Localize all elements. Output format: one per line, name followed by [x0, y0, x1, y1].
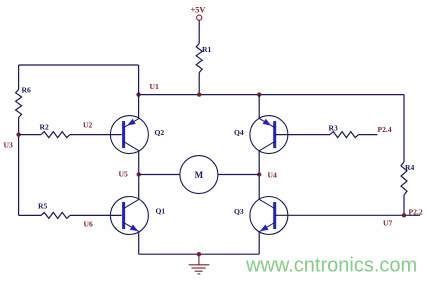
resistor R6 [16, 90, 22, 118]
svg-text:U5: U5 [119, 170, 128, 179]
svg-text:P2.4: P2.4 [378, 125, 392, 134]
wire bus to Q2 collector [138, 65, 140, 118]
transistor Q3 [250, 197, 288, 235]
wire R3 to P2.4 [359, 134, 378, 136]
wire bottom rail [139, 253, 260, 255]
svg-text:R3: R3 [329, 124, 338, 133]
svg-text:U1: U1 [150, 82, 159, 91]
transistor Q1 [110, 197, 148, 235]
node P2.2 junction [402, 213, 406, 217]
wire top bus [139, 94, 404, 96]
node U1 [136, 92, 140, 96]
svg-text:P2.2: P2.2 [409, 208, 423, 217]
wire right vertical upper [403, 95, 405, 162]
wire U5 to motor [139, 174, 180, 176]
wire left vertical upper [18, 65, 20, 90]
svg-text:U6: U6 [84, 220, 93, 229]
svg-text:Q1: Q1 [156, 207, 166, 216]
wire bus to Q4 [258, 95, 260, 119]
wire R1 to bus [198, 73, 200, 95]
motor M [180, 156, 218, 194]
wire right vertical lower [403, 195, 405, 215]
svg-text:R5: R5 [38, 202, 47, 211]
wire motor to U4 [218, 174, 259, 176]
svg-text:Q4: Q4 [234, 128, 244, 137]
wire top-left horizontal [19, 64, 139, 66]
wire Q4 to U4 [258, 151, 260, 200]
node U4 [257, 172, 261, 176]
svg-text:www.cntronics.com: www.cntronics.com [245, 255, 417, 277]
wire R5 to Q1 base [70, 214, 122, 216]
wire R2 to Q2 base [70, 134, 122, 136]
svg-text:R4: R4 [405, 163, 414, 172]
junction R1/bus [197, 92, 201, 96]
svg-text:R2: R2 [40, 123, 49, 132]
svg-text:U4: U4 [268, 170, 277, 179]
wire U3 to R2 [19, 134, 41, 136]
resistor R3 [330, 132, 359, 138]
wire Q2 to U5 [138, 151, 140, 200]
resistor R2 [41, 132, 70, 138]
resistor R4 [401, 162, 407, 195]
wire left vertical lower [18, 118, 20, 216]
wire +5V to R1 [198, 20, 200, 43]
svg-text:R6: R6 [22, 86, 31, 95]
transistor Q2 [110, 116, 148, 154]
transistor Q4 [250, 116, 288, 154]
wire Q1 emitter down [138, 232, 140, 255]
resistor R5 [41, 212, 70, 218]
wire corner to R5 [19, 214, 41, 216]
svg-text:U7: U7 [383, 219, 392, 228]
svg-text:R1: R1 [202, 45, 211, 54]
svg-text:Q3: Q3 [234, 207, 244, 216]
wire Q4 base to R3 [275, 134, 330, 136]
node U3 [16, 132, 20, 136]
junction Q4/bus [257, 92, 261, 96]
resistor R1 [196, 44, 202, 73]
svg-text:Q2: Q2 [155, 128, 165, 137]
node U5 [137, 172, 141, 176]
svg-text:M: M [195, 170, 204, 180]
ground [197, 252, 201, 256]
svg-text:+5V: +5V [191, 6, 206, 15]
svg-text:U3: U3 [4, 140, 13, 149]
wire Q3 base to P2.2 [275, 214, 420, 216]
wire Q3 emitter down [258, 232, 260, 255]
svg-text:U2: U2 [83, 120, 92, 129]
